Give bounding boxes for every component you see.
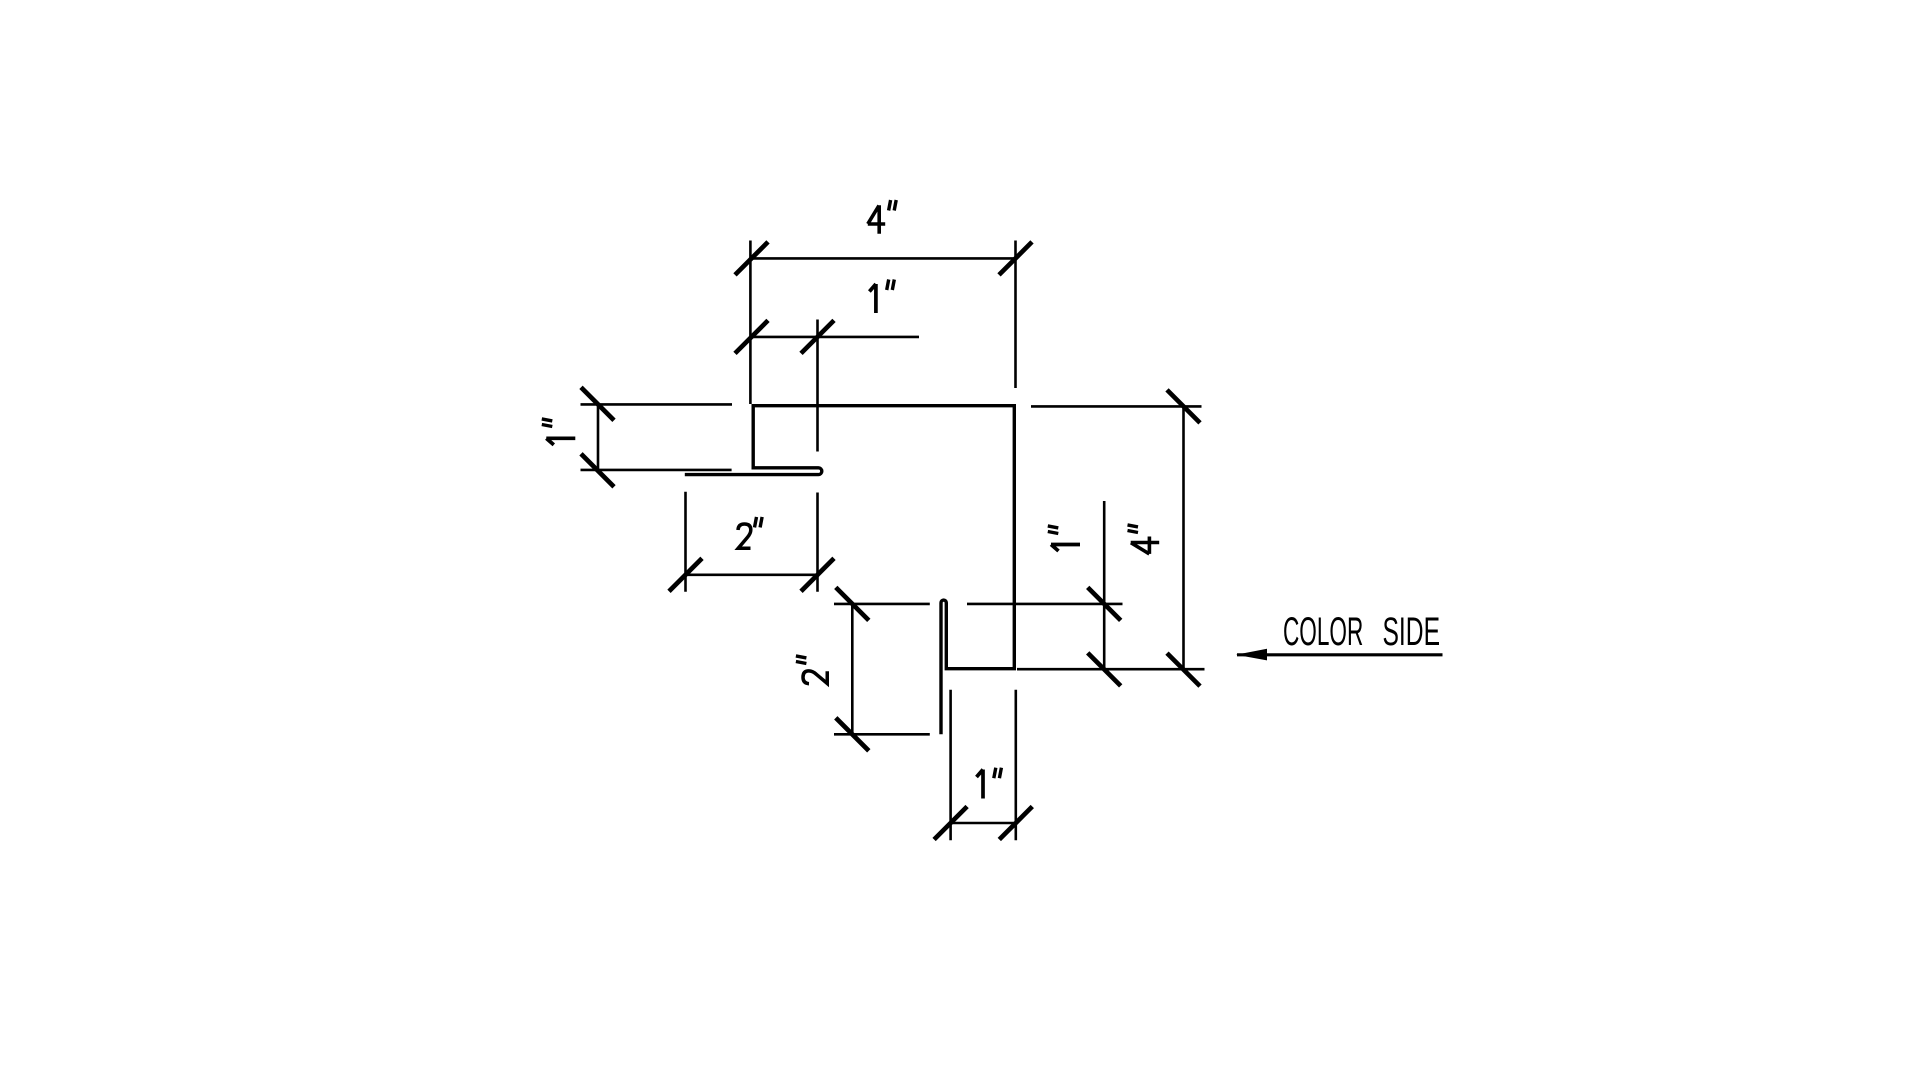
- label 4 inch top: [868, 205, 885, 234]
- svg-text:COLOR: COLOR: [1283, 610, 1363, 654]
- tick 1" left top: [581, 387, 614, 420]
- dim line 1" left vertical: [597, 404, 600, 471]
- tick 2" horiz left: [669, 558, 702, 591]
- ext line at x=817.5 upper (1" top): [816, 320, 819, 452]
- ext right of bottom 1": [1014, 690, 1017, 841]
- tick marks: [581, 242, 1200, 840]
- dim line 2" vertical: [851, 604, 854, 734]
- tick 4" right bottom: [1167, 653, 1200, 686]
- tick 1" right bottom: [1088, 653, 1121, 686]
- label 1 inch left (rotated): [546, 438, 575, 445]
- ext left of bottom 1": [949, 690, 952, 841]
- dim line 1" top: [752, 336, 920, 339]
- tick 1" left bottom: [581, 454, 614, 487]
- ext bottom of left 1": [581, 469, 732, 472]
- dim line 1" bottom: [951, 822, 1016, 825]
- ext line y=604 left segment: [834, 603, 930, 606]
- tick 1" top left: [735, 320, 768, 353]
- tick 2" vert top: [836, 587, 869, 620]
- dimension: 4 inch top: [581, 241, 1205, 841]
- tick 2" vert bottom: [836, 718, 869, 751]
- ext line right of 4" top: [1014, 241, 1017, 389]
- ext line y=604 right segment: [967, 603, 1123, 606]
- dim line 1" right vertical: [1103, 501, 1106, 670]
- color side arrow line: [1237, 653, 1443, 656]
- dim line 2" horizontal: [686, 573, 818, 576]
- label 1 inch right (rotated): [1051, 545, 1080, 552]
- ext left of 2" horizontal: [684, 492, 687, 592]
- tick 1" top right: [801, 320, 834, 353]
- ext bottom of 2" vertical: [834, 733, 930, 736]
- color side arrowhead: [1236, 649, 1267, 661]
- svg-text:SIDE: SIDE: [1383, 610, 1441, 654]
- tick 1" bottom right: [999, 807, 1032, 840]
- dim line 4" right vertical: [1182, 406, 1185, 669]
- ext top of right 4": [1031, 405, 1202, 408]
- trim profile (sheet metal outside corner): [685, 406, 1015, 735]
- tick 4" right top: [1167, 390, 1200, 423]
- ext right of 2" horizontal: [816, 493, 819, 592]
- ext top of left 1": [581, 403, 733, 406]
- tick 2" horiz right: [801, 558, 834, 591]
- label 1 inch top: [869, 284, 876, 313]
- tick 4" top left: [735, 242, 768, 275]
- label 2 inch vertical (rotated): [803, 671, 827, 684]
- ext line left of 4" top: [749, 241, 752, 405]
- tick 4" top right: [999, 242, 1032, 275]
- label 2 inch horizontal: [738, 524, 751, 548]
- tick 1" bottom left: [934, 807, 967, 840]
- label 1 inch bottom: [977, 770, 984, 799]
- dim line 4" top: [752, 257, 1016, 260]
- ext bottom of right 4": [1017, 668, 1205, 671]
- label 4 inch right (rotated): [1131, 537, 1160, 554]
- tick 1" right top: [1088, 587, 1121, 620]
